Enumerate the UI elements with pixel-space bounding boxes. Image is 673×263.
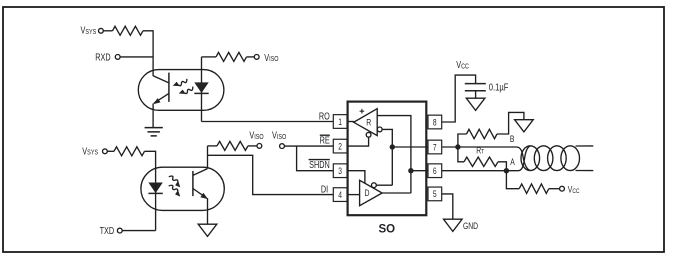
svg-text:SHDN: SHDN	[309, 159, 330, 170]
wire driver output to node A	[382, 192, 411, 194]
terminal VISO (bottom left)	[257, 144, 262, 149]
wire Q2 collector to VISO node	[207, 146, 209, 169]
svg-text:VSYS: VSYS	[81, 24, 97, 36]
svg-text:R: R	[366, 116, 371, 127]
optocoupler O2 body (bottom)	[141, 167, 224, 210]
svg-text:7: 7	[433, 142, 437, 152]
wire A junction down to resistor R6	[506, 171, 519, 189]
wire branch to pin 3 (SHDN)	[297, 146, 334, 171]
pin 6 box	[428, 164, 442, 178]
ground (triangle, under C1)	[466, 98, 485, 110]
wire VISO to pin 2 (RE)	[284, 145, 333, 147]
resistor Rt (termination)	[464, 157, 498, 166]
svg-text:VSYS: VSYS	[82, 145, 98, 157]
resistor R5 (B bias)	[467, 129, 498, 138]
pin 3 box	[333, 164, 347, 178]
label RO	[319, 110, 330, 121]
label B	[510, 134, 515, 144]
wire node A to pin 6	[411, 170, 428, 172]
junction A external	[504, 168, 509, 173]
label Rt	[476, 145, 484, 155]
wire pin 8 to VCC	[442, 75, 476, 122]
wire TXD terminal to LED	[122, 230, 155, 232]
wire R3 to LED D2 anode	[145, 151, 156, 182]
label DI	[321, 183, 328, 194]
label SO	[378, 224, 395, 236]
terminal VISO (top)	[254, 55, 259, 60]
wire Q1 emitter to ground	[152, 104, 154, 128]
terminal VSYS (bottom)	[103, 149, 108, 154]
ground (triangle, B bias)	[515, 120, 534, 132]
photon arrows O1	[172, 77, 194, 97]
receiver R triangle	[354, 109, 378, 136]
svg-text:SO: SO	[378, 224, 395, 236]
label GND	[463, 221, 478, 231]
label VSYS (bottom)	[82, 145, 98, 157]
wire node RO: LED D1 cathode to pin 1	[202, 121, 334, 123]
svg-text:0.1µF: 0.1µF	[489, 81, 509, 92]
label TXD	[100, 225, 115, 236]
pin 7 box	[428, 140, 442, 154]
svg-text:2: 2	[338, 141, 342, 151]
ground (isolated, triangle, under O2)	[198, 224, 217, 236]
wire C1 to ground	[475, 91, 477, 98]
wire R1 to collector node	[143, 31, 153, 76]
svg-text:VISO: VISO	[264, 52, 278, 64]
wire R2 to VISO terminal	[202, 56, 217, 58]
svg-text:TXD: TXD	[100, 225, 115, 236]
twisted pair cable	[517, 146, 593, 171]
pin 7 number	[433, 142, 437, 152]
label SHDN (with overline)	[309, 159, 330, 170]
label VISO (top)	[264, 52, 278, 64]
junction node B	[390, 144, 395, 149]
label RXD	[95, 51, 110, 62]
label VCC (top)	[456, 59, 469, 71]
pin 1 number	[338, 117, 342, 127]
svg-text:VCC: VCC	[456, 59, 469, 71]
label RE (with overline)	[320, 134, 330, 145]
capacitor C1 0.1uF	[465, 84, 486, 91]
svg-text:VISO: VISO	[249, 129, 263, 141]
pin 3 number	[338, 166, 342, 176]
label 0.1uF	[489, 81, 509, 92]
optocoupler O1 body (top)	[138, 70, 224, 111]
label VSYS (top)	[81, 24, 97, 36]
driver D triangle	[360, 180, 383, 205]
transistor Q1 emitter	[154, 93, 169, 103]
svg-text:A: A	[510, 157, 515, 167]
svg-text:8: 8	[433, 117, 437, 127]
wire node DI: collector branch to pin 4	[208, 155, 334, 194]
transistor Q1 emitter arrow	[153, 98, 161, 104]
wire DI pin4 to driver input	[348, 194, 360, 196]
wire pin1 to receiver output	[348, 121, 355, 123]
receiver inverting input bubble	[377, 127, 382, 132]
svg-text:B: B	[510, 134, 515, 144]
resistor R1 (VSYS pull-up, RXD side)	[113, 26, 144, 35]
pin 4 box	[333, 188, 347, 202]
transistor Q2 emitter arrow	[200, 193, 208, 199]
svg-text:5: 5	[433, 189, 437, 199]
wire R6 to VCC terminal	[549, 188, 560, 190]
svg-text:DI: DI	[321, 183, 328, 194]
wire VSYS to resistor R1	[103, 30, 112, 32]
LED D2 (bottom opto)	[148, 183, 162, 194]
wire pin 6 to line A	[442, 170, 519, 172]
wire pin 7 to line B	[442, 146, 517, 148]
junction node A	[408, 168, 413, 173]
overline RE	[320, 134, 330, 136]
driver inverting output bubble	[372, 183, 377, 188]
label A	[510, 157, 515, 167]
resistor R4 (VISO pull, bottom)	[217, 141, 248, 150]
wire R2 right lead	[247, 56, 255, 58]
wire B junction down to Rt	[458, 147, 464, 162]
op-amp U1 package outline	[348, 102, 427, 216]
terminal VISO (RE/SHDN)	[280, 144, 285, 149]
label VCC (bottom right)	[568, 183, 580, 195]
transistor Q2 collector	[193, 169, 208, 176]
wire R5 to ground triangle	[497, 112, 524, 134]
wire R4 to VISO terminal	[248, 145, 257, 147]
wire VSYS to resistor R3	[107, 150, 114, 152]
overline SHDN	[309, 159, 330, 161]
wire RXD to collector node	[120, 56, 153, 58]
LED D1 (top opto)	[194, 82, 208, 93]
wire VISO node down through LED D1	[201, 57, 203, 122]
pin 2 number	[338, 141, 342, 151]
wire pin 5 to ground	[442, 194, 453, 219]
wire collector node to R4	[208, 145, 218, 147]
wire SHDN pin3 into driver	[348, 171, 365, 184]
transistor Q2 emitter	[193, 189, 207, 198]
resistor R3 (VSYS, TXD side)	[114, 147, 145, 156]
wire R- input to node B	[382, 129, 392, 185]
terminal VCC (bottom right)	[560, 186, 565, 191]
wire node B to pin 7	[392, 146, 428, 148]
resistor R2 (VISO pull, top)	[216, 52, 247, 61]
svg-text:RE: RE	[320, 134, 330, 145]
terminal VSYS (top)	[99, 28, 104, 33]
label R (receiver)	[366, 116, 371, 127]
ground (triangle, GND)	[444, 219, 463, 231]
receiver + mark	[360, 109, 365, 114]
label VISO (RE/SHDN)	[272, 129, 286, 141]
svg-text:GND: GND	[463, 221, 478, 231]
pin 2 box	[333, 139, 347, 153]
wire R+ input to node A	[377, 116, 411, 193]
pin 5 number	[433, 189, 437, 199]
wire Q2 emitter to ground	[207, 198, 209, 224]
resistor R6 (A bias)	[519, 184, 549, 193]
pin 4 number	[338, 190, 342, 200]
junction B external	[455, 144, 460, 149]
pin 5 box	[428, 187, 442, 201]
svg-text:1: 1	[338, 117, 342, 127]
pin 1 box	[333, 115, 347, 129]
label D (driver)	[364, 187, 369, 198]
svg-text:VCC: VCC	[568, 183, 580, 195]
receiver enable bubble	[366, 132, 371, 137]
wire Rt to node A	[498, 162, 506, 171]
svg-text:3: 3	[338, 166, 342, 176]
pin 8 number	[433, 117, 437, 127]
wire LED D2 cathode to TXD	[155, 182, 157, 230]
label VISO (bottom left)	[249, 129, 263, 141]
svg-text:4: 4	[338, 190, 342, 200]
svg-text:VISO: VISO	[272, 129, 286, 141]
wire RE pin2 to enable bubble	[348, 137, 369, 146]
photon arrows O2	[167, 175, 183, 198]
pin 8 box	[428, 115, 442, 129]
wire driver inv output to node B	[376, 184, 392, 186]
transistor Q2 base bar	[192, 171, 194, 196]
wire B junction up to resistor R5	[458, 134, 467, 147]
pin 6 number	[433, 166, 437, 176]
transistor Q1 collector	[153, 76, 169, 83]
svg-text:RXD: RXD	[95, 51, 110, 62]
transistor Q1 base bar	[168, 73, 170, 102]
ground (system, 3-bar)	[145, 128, 163, 136]
svg-text:RO: RO	[319, 110, 330, 121]
terminal TXD	[117, 228, 122, 233]
svg-text:6: 6	[433, 166, 437, 176]
svg-text:D: D	[364, 187, 369, 198]
terminal RXD	[115, 55, 120, 60]
